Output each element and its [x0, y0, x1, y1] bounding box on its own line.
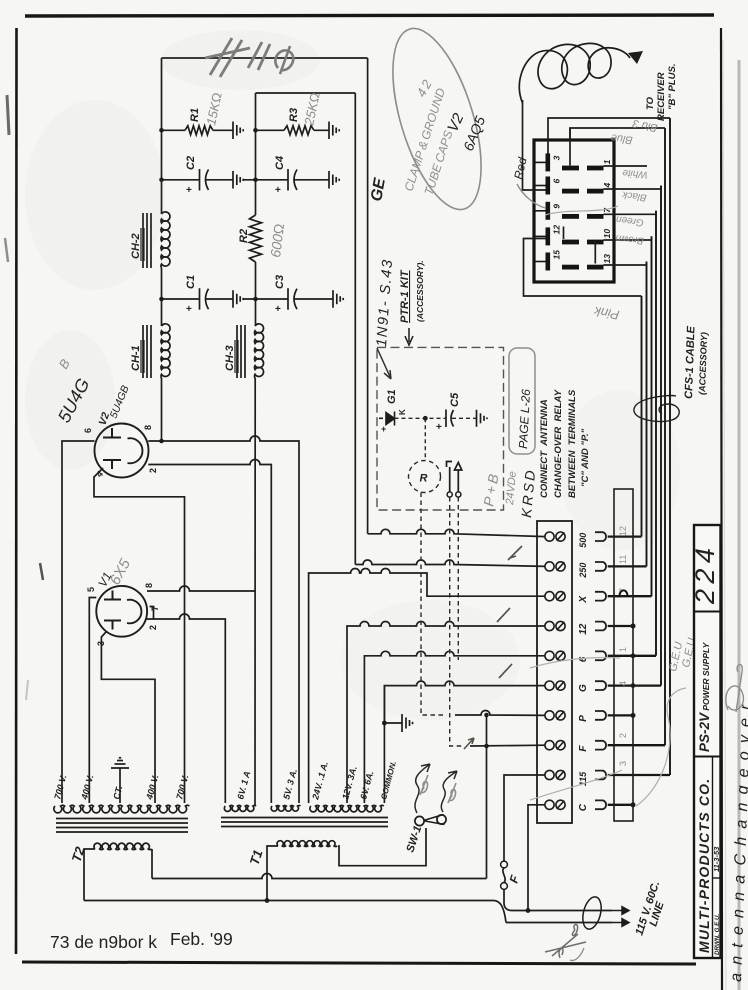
connector pin 6 (left bar)	[546, 177, 551, 195]
ground (C5, right-pointing)	[477, 410, 488, 427]
choke CH-2 coil	[161, 212, 170, 268]
X row little loop	[616, 590, 628, 596]
wire lug row y=804.8	[608, 804, 634, 806]
svg-text:X: X	[578, 595, 589, 604]
node dot T1 primary left on wire B	[265, 898, 270, 903]
cord loop ellipse	[580, 895, 604, 931]
boxed note PAGE L-26	[509, 348, 535, 454]
choke CH-3 core	[237, 325, 245, 378]
spade lug C	[595, 800, 606, 809]
terminal C screws	[545, 800, 554, 809]
svg-text:13: 13	[602, 254, 612, 264]
wire CT riser with ground	[119, 768, 121, 803]
svg-text:250: 250	[578, 563, 588, 579]
pencil squiggle under blue	[545, 206, 618, 215]
svg-text:PTR-1 KIT: PTR-1 KIT	[399, 269, 411, 323]
node dot ground branch	[382, 721, 387, 726]
svg-text:2 2 4: 2 2 4	[690, 548, 720, 605]
lasso loop around cable	[634, 396, 679, 422]
wire V2 pin 8 row: joins L1, hops L2, corners down at x=299 to 5V winding	[148, 436, 299, 803]
dashed wire left contact down to F terminal row	[450, 497, 462, 746]
svg-text:R: R	[420, 473, 428, 485]
svg-text:8: 8	[144, 583, 154, 588]
svg-text:2: 2	[618, 733, 628, 738]
spade lug P	[595, 711, 606, 720]
wire outer rail right (x=367.6, B+ down to 500 terminal row)	[367, 58, 369, 534]
wire B+ top rail (outer box top)	[162, 57, 368, 59]
bus bar rectangle	[614, 489, 633, 821]
fuse F	[501, 861, 508, 868]
wire B+ 500 row: corner from outer rail to 500 terminal, hops dashed lines	[368, 529, 546, 536]
svg-text:C2: C2	[185, 156, 197, 170]
wire C4 row	[256, 179, 330, 181]
wire B: bottom horizontal to line cord	[84, 901, 506, 923]
svg-text:White: White	[621, 167, 648, 180]
svg-text:4: 4	[602, 183, 612, 189]
wire V1 pin 8 row to L2 (T junction) with hop at x=184.5	[147, 586, 255, 591]
tube V2 (5U4GB rectifier) envelope	[95, 424, 149, 478]
scan smudges left edge	[7, 95, 9, 135]
ground (C1 row)	[233, 290, 243, 308]
node dot F junction	[484, 744, 489, 749]
svg-text:RECEIVER: RECEIVER	[656, 72, 667, 121]
wire lug row y=566.4	[608, 565, 647, 567]
scan paper right edge shadow	[738, 60, 741, 990]
transformer T2 core	[56, 819, 188, 833]
svg-text:+: +	[381, 424, 386, 434]
wire V2 pin 2 row: hops L2, corners down at x=271.3 to 5V winding	[148, 460, 271, 804]
connector pin middle bar row 5	[562, 265, 579, 270]
terminal P screws	[545, 711, 554, 720]
connector pin middle bar row 3	[562, 214, 579, 219]
diode G1	[379, 412, 395, 426]
dashed wire G1 to C5 to ground	[395, 417, 477, 419]
terminal F screws	[545, 741, 554, 750]
svg-text:CH-3: CH-3	[224, 345, 236, 371]
svg-text:R1: R1	[189, 108, 201, 122]
svg-text:3: 3	[618, 761, 628, 766]
arrow from 1N91 note to G1	[377, 348, 391, 379]
border frame bottom	[22, 962, 696, 964]
cable conductor x=651.5	[651, 236, 653, 596]
line cord arrows	[612, 907, 629, 915]
terminal X screws	[545, 592, 554, 601]
node dot C wire on cord	[526, 908, 531, 913]
svg-text:+: +	[275, 304, 281, 315]
svg-text:15: 15	[552, 250, 562, 260]
connector internal wire: row4 middle bar stub	[563, 227, 565, 240]
svg-text:11-3-53: 11-3-53	[712, 846, 721, 872]
switch SW-1 blade	[424, 815, 445, 825]
wire V2 pin 6 to 700V tap (left)	[62, 441, 95, 803]
svg-text:(ACCESSORY).: (ACCESSORY).	[415, 260, 425, 322]
transformer T1 secondary section 2 (5V.3A)	[271, 805, 300, 811]
pencil check marks near strip	[508, 546, 522, 560]
border frame top	[25, 15, 714, 16]
node dot relay junction	[423, 416, 428, 421]
svg-text:1: 1	[618, 647, 628, 652]
wire V1 pin 3 down, right, down at x=155 to 400V tap	[101, 632, 155, 803]
transformer T1 primary winding	[277, 841, 337, 847]
connector pin 12 (left bar)	[546, 227, 551, 245]
svg-text:11: 11	[618, 555, 628, 564]
svg-text:73 de n9bor k: 73 de n9bor k	[50, 932, 157, 952]
connector internal wire: top entry to row1 middle bar	[569, 128, 571, 166]
wire V1 pin 7 stub	[150, 607, 154, 620]
wire rail L2 (x=255.5 through R2, CH-3, down to transformer T1)	[254, 93, 257, 806]
capacitor C2	[200, 169, 209, 191]
wire T2 primary right end down to wire A	[151, 849, 153, 879]
svg-text:C: C	[578, 803, 589, 811]
title block frame	[694, 525, 721, 958]
spade lug 6	[595, 651, 606, 660]
choke CH-2 core	[143, 213, 151, 268]
cable conductor x=646.5	[646, 262, 648, 567]
line cord upper conductor	[512, 910, 612, 912]
node dot P junction	[484, 713, 489, 718]
connector pin middle bar row 1	[562, 166, 579, 171]
ground (C2 row)	[233, 171, 243, 189]
capacitor C3	[288, 288, 297, 310]
wire pin1 stub right	[604, 165, 648, 167]
pencil scratch top (#/44/B)	[205, 38, 270, 77]
wire C1 row	[162, 298, 256, 300]
ground (C3 row)	[333, 290, 343, 308]
wire V1 pin 2 row to x=225.3 down to 6V.1A winding, hop at 184.5	[146, 614, 225, 803]
ground (R3 row)	[329, 122, 339, 140]
arrow PTR-1 to dashed box	[405, 328, 413, 345]
wire C2 row	[162, 179, 256, 181]
dashed box PTR-1 kit	[377, 347, 504, 510]
wire lug row y=685.6	[608, 684, 661, 686]
svg-text:P: P	[578, 715, 589, 722]
transformer T1 secondary section 3	[310, 805, 384, 811]
svg-text:4: 4	[618, 681, 628, 686]
svg-text:5: 5	[86, 587, 96, 592]
svg-text:DRWN. G.E.U.: DRWN. G.E.U.	[714, 914, 721, 955]
connector pin 4 (right bar)	[587, 189, 604, 194]
line cord lower conductor	[506, 922, 612, 924]
terminal 250 screws	[545, 562, 554, 571]
resistor R2 (vertical on L2)	[250, 215, 262, 262]
dashed wire right contact down	[457, 497, 459, 660]
wire pin13 stub right to cable	[604, 262, 647, 266]
wire R3 row	[256, 129, 330, 131]
transformer T2 primary winding	[94, 843, 152, 849]
tube V1 filament arc	[127, 600, 141, 624]
pencil scribble bottom initials	[545, 924, 586, 958]
wire left rail L1 (x=161.5 from top rail down to V2 pin 8)	[161, 58, 163, 441]
dashed wire junction down to relay coil	[424, 418, 426, 460]
svg-text:TO: TO	[645, 96, 656, 110]
wire 12V tap riser x=347 to 12 terminal row	[347, 622, 546, 804]
svg-text:8: 8	[143, 425, 153, 430]
cable conductor x=665.0	[664, 128, 666, 745]
spade lug X	[595, 592, 606, 601]
svg-text:R2: R2	[238, 229, 250, 243]
svg-text:MULTI-PRODUCTS CO.: MULTI-PRODUCTS CO.	[696, 778, 712, 953]
pencil blob CLAMP & GROUND TUBE CAPS	[375, 19, 499, 220]
svg-text:1: 1	[602, 159, 612, 164]
terminal 115 screws	[545, 770, 554, 779]
wire riser from P/F junctions down to wire A	[486, 715, 488, 879]
svg-text:CFS-1 CABLE: CFS-1 CABLE	[683, 325, 698, 399]
wire pin6 feed from coil drop	[523, 100, 546, 190]
svg-text:CONNECT ANTENNA: CONNECT ANTENNA	[539, 399, 550, 498]
svg-text:12: 12	[578, 623, 589, 635]
svg-text:G: G	[578, 684, 589, 692]
ground (C4 row)	[329, 171, 339, 189]
connector pin 10 (right bar)	[587, 240, 604, 245]
tube V2 plate bars	[103, 428, 121, 469]
svg-text:F: F	[578, 745, 589, 752]
svg-text:Feb. '99: Feb. '99	[170, 929, 233, 949]
svg-text:+: +	[436, 422, 442, 433]
wire lug row y=536.6	[608, 535, 642, 537]
pencil pointer from RED to pin 9	[517, 184, 545, 208]
svg-text:CH-1: CH-1	[130, 345, 142, 371]
svg-text:10: 10	[602, 229, 612, 239]
wire V2 pin 4 down and right to 700V tap (x=184.5)	[94, 468, 185, 803]
wire 24V tap riser x=308.6 with jog to X terminal row	[309, 569, 546, 804]
svg-text:2: 2	[148, 468, 158, 473]
wire COMMON riser x=384.4 to G terminal row	[384, 681, 545, 803]
pencil curve near bus	[636, 688, 686, 806]
capacitor C5	[446, 410, 454, 428]
node dot pin8/L1 junction	[159, 439, 164, 444]
node dot C1 row on L2	[253, 297, 258, 302]
wire lug row y=745.2	[608, 744, 665, 746]
spade lug 500	[595, 532, 606, 541]
spade lug 115	[595, 771, 606, 780]
wire 115 row from terminal left then down to fuse	[504, 775, 546, 861]
choke CH-1 core	[143, 325, 151, 378]
wire top loop 2: to cable, down to F	[570, 128, 665, 140]
connector body	[534, 140, 614, 282]
tube V2 filament arc	[128, 438, 143, 463]
connector pin 1 (right bar)	[587, 166, 604, 171]
wire T2 primary left end down to bottom wire B	[84, 849, 95, 901]
node dot C2 row on L1	[159, 178, 164, 183]
wire lug row y=775.0	[608, 774, 670, 776]
wire R1 row	[162, 129, 234, 131]
spade lug 250	[595, 562, 606, 571]
svg-text:C5: C5	[449, 392, 461, 407]
spade lug G	[595, 681, 606, 690]
border frame right	[721, 28, 722, 990]
connector pin 9 (left bar)	[546, 202, 551, 220]
wire P row solid from junction to terminal	[455, 711, 546, 716]
pencil phi marks on arrows	[420, 775, 428, 795]
svg-text:K: K	[398, 409, 407, 415]
terminal 6 screws	[545, 651, 554, 660]
wire C row from terminal left then down to line cord	[528, 805, 546, 911]
svg-text:12: 12	[552, 225, 562, 235]
cable conductor x=661.0	[660, 186, 662, 686]
cable conductor x=641.5	[641, 296, 643, 537]
svg-text:"B" PLUS.: "B" PLUS.	[667, 64, 678, 110]
svg-text:6: 6	[552, 179, 562, 184]
svg-text:2: 2	[148, 625, 158, 630]
node dot R3 row on L2	[253, 128, 258, 133]
svg-text:9: 9	[552, 204, 562, 209]
node dot R1 row on L1	[159, 128, 164, 133]
wire lug row y=596.2	[608, 595, 652, 597]
coil pigtail wire to receiver	[519, 43, 630, 103]
cable conductor x=670.0	[669, 118, 671, 775]
terminal strip body	[537, 521, 572, 823]
connector pin 15 (left bar)	[546, 253, 551, 271]
terminal G screws	[545, 681, 554, 690]
transformer T2 secondary winding	[54, 805, 190, 813]
resistor R3	[284, 126, 314, 135]
wire fuse bottom to line cord upper	[504, 890, 512, 911]
svg-text:+: +	[186, 185, 192, 196]
wire top loop 1 (RED/B+): over connector to cable right, down to 115	[548, 118, 670, 154]
choke CH-3 coil	[255, 324, 264, 378]
wire inner box right rail (x=355.3 down to 250 terminal row)	[354, 93, 356, 565]
svg-text:R3: R3	[288, 108, 300, 122]
wire F row solid from junction to terminal	[470, 744, 546, 747]
wire pin10 stub right to cable	[604, 236, 652, 240]
svg-text:+: +	[186, 304, 192, 315]
capacitor C4	[288, 169, 297, 191]
connector pin 3 (left bar)	[546, 153, 551, 171]
wire lug row y=715.4	[608, 714, 634, 716]
wire chassis ground branch from COMMON riser	[384, 686, 402, 723]
svg-text:C3: C3	[274, 275, 286, 289]
pencil squiggle arrows from SW-1	[415, 764, 430, 813]
wire A: lower horizontal from T2 primary to F/P riser, hop at x=267	[152, 874, 487, 879]
switch SW-1 terminals	[415, 816, 424, 825]
resistor R1	[185, 126, 213, 135]
scan mottling	[25, 100, 165, 290]
spade lug F	[595, 741, 606, 750]
wire V1 pin 5 to 400V tap (x=89.3)	[89, 598, 96, 804]
connector pin 7 (right bar)	[587, 214, 604, 219]
relay R coil (dashed circle)	[409, 461, 441, 493]
connector pin middle bar row 2	[562, 189, 579, 194]
relay contact right (with triangle)	[455, 463, 462, 493]
wire pin4 stub right to cable	[604, 186, 662, 190]
border frame left	[15, 28, 18, 954]
svg-text:C1: C1	[185, 275, 197, 289]
terminal 12 screws	[545, 621, 554, 630]
title block divider PS-2V/MULTI	[694, 756, 721, 758]
wire pin12 stub left, down, right (PINK)	[524, 239, 642, 297]
connector pin 13 (right bar)	[587, 265, 604, 270]
svg-text:+: +	[275, 185, 281, 196]
wire 6.3V tap riser x=364.4 to 6 terminal row	[364, 651, 545, 803]
wire lug row y=626.0	[608, 625, 634, 627]
choke CH-1 coil	[161, 324, 170, 378]
svg-text:G1: G1	[386, 389, 398, 404]
ground (CT, up-pointing)	[111, 758, 129, 768]
wire inner box top rail	[256, 92, 356, 94]
ground (R1 row)	[233, 122, 243, 140]
pencil arrow at F junction	[464, 738, 474, 749]
wire C3 row	[256, 298, 334, 300]
tube V1 (6X5 rectifier) envelope	[96, 586, 147, 637]
spade lug 12	[595, 622, 606, 631]
connector internal wire: row4 to row5 right bars	[594, 241, 596, 264]
wire pin7 stub right to cable	[604, 211, 657, 215]
dashed wire relay coil bottom to P terminal row	[421, 493, 445, 716]
cable conductor x=656.0	[655, 211, 657, 656]
node dot C2 row on L2	[253, 178, 258, 183]
tube V1 plate bars	[104, 591, 121, 630]
wire T1 primary right end down then right to SW-1	[338, 828, 426, 866]
node dot C1 row on L1	[159, 297, 164, 302]
transformer T1 core	[221, 818, 388, 827]
wire 250 row from inner rail to 250 terminal	[355, 560, 545, 566]
transformer T1 secondary section 1 (6V.1A)	[224, 805, 256, 811]
connector pin middle bar row 4	[562, 240, 579, 245]
wire lug row y=655.8	[608, 655, 656, 657]
svg-text:3: 3	[552, 155, 562, 160]
svg-text:C4: C4	[274, 156, 286, 170]
relay contact left (with circle)	[447, 462, 453, 493]
terminal 500 screws	[545, 532, 554, 541]
capacitor C1	[200, 288, 209, 310]
title block narrow column	[712, 757, 714, 958]
wire T1 primary left end down to wire B	[267, 846, 278, 901]
title block divider 224/PS-2V	[694, 611, 721, 613]
ground (chassis, right-pointing)	[402, 714, 413, 732]
arrow to receiver	[628, 51, 643, 64]
